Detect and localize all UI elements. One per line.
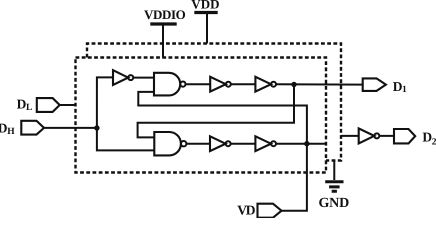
port D_2 output pentagon bbox=[394, 129, 415, 143]
wire feedback from node B to NAND G2 upper input bbox=[138, 84, 294, 137]
power domain box VDDIO (inner dashed rectangle) bbox=[75, 57, 326, 172]
svg-text:L: L bbox=[26, 103, 32, 113]
NAND gate G2 bbox=[154, 132, 181, 155]
wire G1 output to inverter U2 bbox=[186, 83, 211, 85]
svg-text:VD: VD bbox=[237, 203, 255, 218]
port D_L input pentagon bbox=[37, 98, 60, 112]
svg-text:H: H bbox=[7, 127, 15, 137]
NAND gate G1 bbox=[154, 73, 180, 96]
wire D_H to node A bbox=[44, 127, 97, 129]
wire node A down to NAND G2 lower input bbox=[97, 128, 154, 150]
svg-text:1: 1 bbox=[402, 85, 407, 95]
inverter U5 bbox=[255, 136, 271, 151]
svg-text:2: 2 bbox=[432, 138, 436, 148]
svg-text:GND: GND bbox=[318, 196, 349, 211]
wire from D_L to domain boundary bbox=[60, 104, 76, 106]
port VD input pentagon bbox=[257, 204, 281, 218]
ground GND symbol bbox=[325, 161, 343, 192]
supply VDD bar bbox=[194, 11, 217, 14]
junction node B bbox=[291, 82, 296, 87]
inverter U6 bbox=[359, 128, 375, 143]
junction node A bbox=[94, 125, 99, 130]
inverter U2 bbox=[210, 77, 226, 92]
power domain outline VDD (outer dashed polyline) bbox=[87, 43, 341, 160]
wire U2 to inverter U3 bbox=[231, 83, 256, 85]
wire U4 to inverter U5 bbox=[231, 143, 256, 145]
inverter U1 bbox=[113, 70, 128, 85]
wire feedback from node C to NAND G1 lower input bbox=[138, 92, 307, 144]
wire U3 output through node B to D1 port bbox=[276, 83, 363, 85]
wire U5 output through node C to domain boundary bbox=[276, 143, 326, 145]
wire VD to node C bbox=[281, 144, 306, 211]
wire U6 to D2 port bbox=[379, 135, 394, 137]
wire U1 output to NAND G1 input A bbox=[133, 77, 154, 79]
wire VDDIO stem bbox=[162, 25, 164, 57]
port D_H input pentagon bbox=[21, 121, 44, 135]
wire node A up to inverter U1 input bbox=[97, 77, 113, 128]
wire from boundary to inverter U6 bbox=[341, 135, 359, 137]
wire G2 output to inverter U4 bbox=[186, 143, 210, 145]
svg-text:VDD: VDD bbox=[191, 0, 219, 12]
supply VDDIO bar bbox=[150, 22, 176, 25]
inverter U3 bbox=[255, 77, 271, 92]
wire VDD stem bbox=[206, 14, 208, 44]
junction node C bbox=[304, 141, 309, 146]
inverter U4 bbox=[210, 136, 226, 151]
svg-text:VDDIO: VDDIO bbox=[144, 7, 186, 22]
port D_1 output pentagon bbox=[363, 78, 386, 91]
